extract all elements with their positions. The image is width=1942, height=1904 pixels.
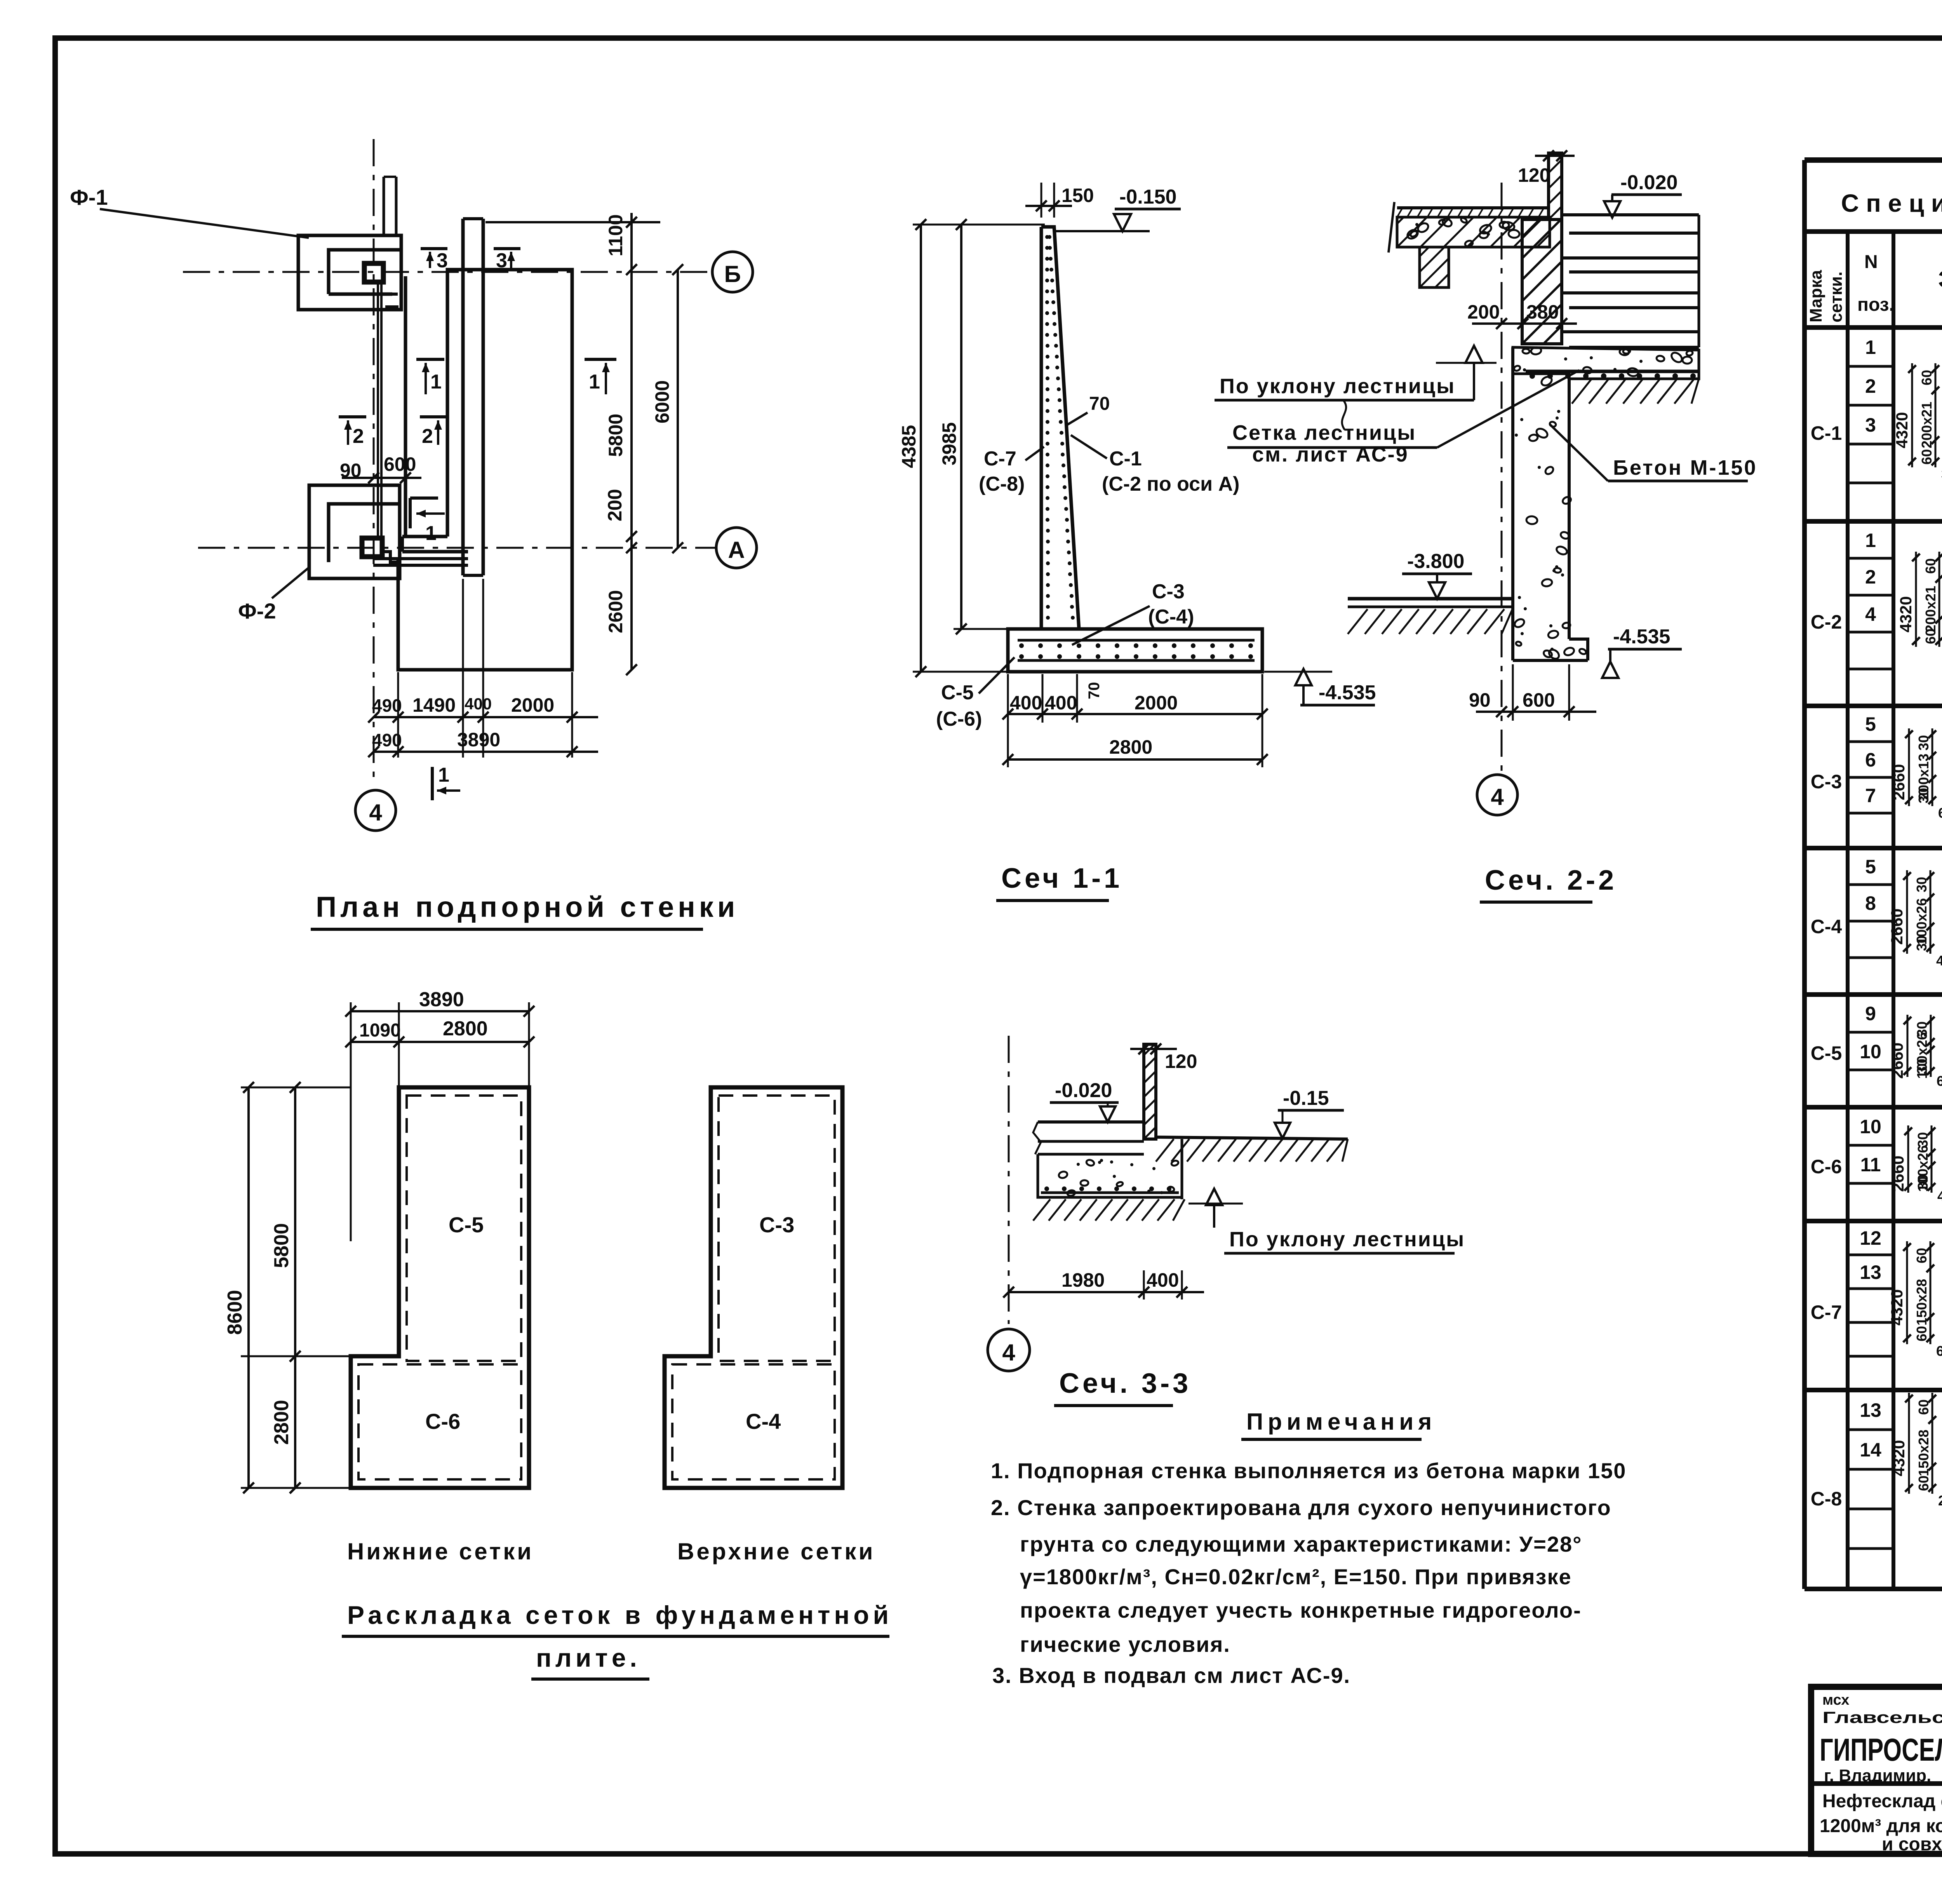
svg-text:3: 3 (437, 249, 448, 272)
svg-text:1: 1 (430, 371, 442, 393)
plan: extension line at top tick (486, 221, 660, 223)
svg-text:Бетон М-150: Бетон М-150 (1613, 456, 1758, 479)
svg-text:Ф-2: Ф-2 (238, 599, 276, 623)
svg-text:3985: 3985 (938, 422, 960, 465)
svg-text:10: 10 (1860, 1041, 1881, 1063)
svg-text:150x28: 150x28 (1914, 1279, 1930, 1326)
svg-text:1100: 1100 (605, 214, 626, 256)
plan: section mark 1 bottom (431, 767, 434, 800)
plan: wall face lines between columns (377, 282, 379, 538)
sec2: wall concrete column (1511, 347, 1514, 639)
svg-text:30: 30 (1916, 788, 1932, 803)
sec3: dim 1980 400 (1009, 1291, 1204, 1293)
sec2: sloped stair slab with pebbles (1513, 347, 1699, 379)
svg-text:3890: 3890 (419, 988, 464, 1011)
titleblock: left row divider (1811, 1781, 1942, 1786)
table: subrow lines С-3 (1848, 740, 1893, 743)
svg-text:(С-4): (С-4) (1148, 606, 1194, 628)
svg-text:400: 400 (465, 695, 492, 713)
svg-text:60: 60 (1919, 370, 1935, 385)
svg-text:По уклону лестницы: По уклону лестницы (1220, 375, 1455, 398)
svg-text:4320: 4320 (1893, 412, 1911, 448)
svg-text:и совхозов: и совхозов (1882, 1834, 1942, 1855)
svg-text:150x28: 150x28 (1916, 1430, 1932, 1476)
sec3: dim 120 top (1130, 1048, 1177, 1050)
svg-text:2600: 2600 (605, 590, 626, 633)
sec2: brick wall band below floor (1522, 219, 1562, 344)
svg-text:-0.020: -0.020 (1620, 171, 1677, 194)
svg-text:1: 1 (438, 764, 449, 786)
svg-text:30: 30 (1915, 1174, 1931, 1190)
table sketch S-2: left dims (1915, 552, 1917, 647)
svg-text:-0.15: -0.15 (1283, 1087, 1329, 1110)
table: subrow lines С-5 (1848, 1031, 1893, 1034)
sec1: extension lines left dims (913, 224, 1045, 226)
labels: leader up to stair with open triangle (1473, 363, 1475, 400)
svg-text:3890: 3890 (457, 729, 500, 751)
sec1: extension verticals bottom dims (1007, 674, 1009, 767)
svg-text:600: 600 (1523, 689, 1555, 711)
plan: axis A circle (716, 528, 757, 568)
svg-text:Нефтесклад емкостью: Нефтесклад емкостью (1822, 1791, 1942, 1812)
svg-text:С-1: С-1 (1109, 448, 1142, 470)
table sketch S-8: left dims (1908, 1393, 1910, 1494)
layout: dashed mesh S-3 (719, 1096, 835, 1361)
plan: leader F-2 (272, 568, 308, 598)
svg-text:Раскладка сеток в фундамент: Раскладка сеток в фундаментной (347, 1601, 893, 1629)
svg-text:5: 5 (1865, 713, 1876, 735)
svg-text:1490: 1490 (412, 694, 456, 716)
layout: dim 3890 top (351, 1010, 529, 1012)
svg-text:С-4: С-4 (1811, 916, 1842, 937)
svg-text:1200м³ для колхозов: 1200м³ для колхозов (1820, 1816, 1942, 1836)
svg-text:С-2: С-2 (1811, 611, 1842, 633)
sec3: rebar dots row (1041, 1192, 1179, 1194)
svg-text:4320: 4320 (1890, 1440, 1908, 1476)
sec3: ground hatch below block (1033, 1199, 1050, 1221)
svg-text:(С-6): (С-6) (936, 708, 982, 730)
table sketch S-7: left dims (1906, 1241, 1908, 1344)
plan: section mark 1 upper right (585, 358, 616, 361)
svg-text:(С-8): (С-8) (979, 473, 1025, 495)
sec3: floor slab left lines (1038, 1120, 1144, 1124)
svg-text:490: 490 (372, 730, 402, 750)
svg-text:200x21: 200x21 (1919, 402, 1935, 448)
svg-text:3: 3 (1865, 414, 1876, 436)
sec1: top dim 150 (1025, 205, 1072, 207)
svg-text:8: 8 (1865, 892, 1876, 914)
table: group separator С-3 (1805, 704, 1942, 708)
layout: upper meshes outline L-shape (665, 1087, 842, 1488)
svg-text:С-7: С-7 (984, 448, 1016, 470)
svg-text:60: 60 (1923, 629, 1939, 644)
svg-text:90: 90 (340, 460, 362, 481)
svg-text:8600: 8600 (224, 1290, 246, 1335)
svg-text:По уклону лестницы: По уклону лестницы (1229, 1228, 1465, 1251)
layout: dashed mesh S-5 (407, 1096, 521, 1361)
svg-text:-4.535: -4.535 (1613, 625, 1670, 648)
sec1: footing bottom rebar line with dots (1018, 659, 1255, 662)
plan: slab outline large rectangle (398, 270, 572, 670)
svg-text:2660: 2660 (1890, 764, 1908, 800)
svg-text:гические условия.: гические условия. (1020, 1632, 1230, 1657)
plan: footing edge double line (461, 219, 465, 575)
svg-text:С-1: С-1 (1811, 422, 1842, 444)
svg-text:6000: 6000 (651, 380, 673, 423)
table: subrow lines С-2 (1848, 557, 1893, 560)
svg-text:С-5: С-5 (941, 681, 974, 704)
svg-text:г. Владимир.: г. Владимир. (1824, 1766, 1931, 1785)
svg-text:4: 4 (369, 800, 382, 826)
svg-text:30: 30 (1914, 935, 1930, 951)
svg-text:С-3: С-3 (759, 1212, 794, 1237)
sec1: stem rebar dots right (1048, 235, 1051, 239)
svg-text:1: 1 (589, 371, 600, 393)
svg-text:(С-2 по оси А): (С-2 по оси А) (1102, 473, 1239, 495)
layout: extension lines left (241, 1087, 399, 1088)
svg-text:13: 13 (1860, 1261, 1881, 1283)
svg-text:65: 65 (1936, 1343, 1942, 1359)
svg-text:С-4: С-4 (746, 1409, 781, 1434)
notes: title underline (1241, 1438, 1422, 1441)
sec3: break mark on floor (1033, 1122, 1041, 1154)
sec2: ground hatch under stair slab (1572, 379, 1592, 404)
svg-text:Б: Б (724, 261, 741, 287)
svg-text:7: 7 (1865, 785, 1876, 807)
svg-text:С-7: С-7 (1811, 1301, 1842, 1323)
svg-text:70: 70 (1086, 682, 1103, 700)
sec2: axis 4 circle (1477, 775, 1517, 815)
svg-text:2660: 2660 (1888, 1043, 1906, 1079)
svg-text:30: 30 (1914, 1059, 1930, 1074)
labels: squiggle between labels (1342, 401, 1346, 430)
svg-text:1090: 1090 (359, 1020, 401, 1041)
svg-text:30: 30 (1914, 877, 1930, 892)
svg-text:N: N (1864, 252, 1878, 272)
svg-text:600: 600 (384, 453, 416, 475)
svg-text:План подпорной стенки: План подпорной стенки (316, 891, 739, 923)
sec2: leader Beton (1550, 424, 1608, 481)
svg-text:11: 11 (1860, 1154, 1881, 1176)
svg-text:60: 60 (1916, 1399, 1932, 1415)
svg-text:Примечания: Примечания (1246, 1409, 1436, 1435)
svg-text:1: 1 (425, 522, 437, 545)
svg-text:2660: 2660 (1888, 909, 1906, 945)
svg-text:13: 13 (1860, 1399, 1881, 1421)
sec2: wall footing step (1513, 639, 1588, 660)
plan: right dimension line 1100 5800 200 2600 (630, 213, 633, 670)
plan: section mark 3 right (494, 247, 520, 250)
svg-text:10: 10 (1860, 1116, 1881, 1138)
plan: extension verticals for bottom dims (397, 672, 399, 758)
plan: dim 90 600 (342, 477, 421, 479)
svg-text:2: 2 (1865, 375, 1876, 397)
svg-text:150: 150 (1061, 185, 1094, 206)
sec3: step edge vertical (1181, 1139, 1183, 1199)
svg-text:Сеч. 3-3: Сеч. 3-3 (1059, 1368, 1191, 1399)
svg-text:2: 2 (422, 425, 433, 448)
layout: line2 underline (531, 1678, 649, 1681)
sec1: footing top rebar line with dots (1018, 639, 1255, 642)
svg-text:Нижние сетки: Нижние сетки (347, 1538, 534, 1564)
svg-text:плите.: плите. (536, 1643, 641, 1672)
plan: section mark 1 upper left (416, 358, 444, 361)
plan: column at F-1 (364, 263, 383, 282)
layout: lower meshes outline L-shape (351, 1087, 529, 1488)
sec2: stair slab rebar mesh line with dots (1526, 370, 1698, 373)
plan: foundation F-1 outer rectangle (298, 235, 401, 310)
sec2: stair treads horizontal lines (1563, 213, 1699, 216)
sec2: dim 120 (1535, 155, 1575, 157)
svg-text:Сеч. 2-2: Сеч. 2-2 (1485, 865, 1617, 896)
sec2: dim 200 380 (1472, 322, 1577, 325)
plan: leader F-1 (100, 209, 309, 238)
table sketch S-1: left dims (1911, 363, 1913, 467)
svg-text:4320: 4320 (1888, 1289, 1906, 1326)
svg-text:-0.020: -0.020 (1055, 1079, 1112, 1102)
svg-text:γ=1800кг/м³, Сн=0.02кг/см², Е=: γ=1800кг/м³, Сн=0.02кг/см², Е=150. При п… (1020, 1564, 1572, 1589)
svg-text:5800: 5800 (270, 1223, 293, 1268)
svg-text:С-3: С-3 (1152, 580, 1185, 603)
sec1: stem rebar dots left (1045, 235, 1049, 239)
svg-text:мсх: мсх (1822, 1692, 1849, 1708)
table: column dividers (1846, 232, 1850, 1589)
table: group separator С-6 (1805, 1105, 1942, 1110)
svg-text:С-8: С-8 (1811, 1488, 1842, 1510)
table: subrow lines С-7 (1848, 1254, 1893, 1256)
svg-text:14: 14 (1860, 1439, 1881, 1461)
svg-text:60: 60 (1914, 1326, 1930, 1341)
svg-text:Марка: Марка (1806, 270, 1825, 322)
sec2: upper thin wall hatched (1549, 153, 1562, 219)
plan: foundation F-2 inner pocket (329, 504, 400, 562)
plan: vertical centerline axis 4 (373, 139, 375, 785)
plan: F-2 step detail (382, 552, 400, 562)
table: subrow lines С-6 (1848, 1144, 1893, 1147)
svg-text:Спецификация: Спецификация (1841, 189, 1942, 217)
sec1: bottom dim 2800 (1008, 758, 1262, 761)
svg-text:120: 120 (1165, 1050, 1197, 1072)
svg-text:поз.: поз. (1857, 294, 1894, 315)
svg-text:20: 20 (1938, 1493, 1942, 1509)
svg-text:-4.535: -4.535 (1319, 681, 1376, 704)
svg-text:70: 70 (1089, 394, 1110, 414)
sec2: stair right edge vertical (1698, 215, 1700, 347)
sec2: title underline (1480, 901, 1592, 904)
plan: retaining wall outer face (404, 276, 407, 535)
svg-text:90: 90 (1469, 689, 1491, 711)
svg-text:С-5: С-5 (1811, 1042, 1842, 1064)
plan: hidden dashes near F-1 (385, 293, 401, 296)
titleblock: outer box (1811, 1687, 1942, 1854)
plan: section mark 1 at F-2 (410, 496, 438, 500)
table: subrow lines С-4 (1848, 883, 1893, 886)
svg-text:3. Вход в подвал см лист АС-: 3. Вход в подвал см лист АС-9. (992, 1663, 1350, 1688)
sec3: ground hatch right (1156, 1139, 1174, 1162)
svg-text:сетки.: сетки. (1827, 272, 1846, 322)
sec2: ground hatch under basement floor (1348, 609, 1368, 634)
svg-text:4320: 4320 (1897, 596, 1915, 632)
plan: axis A dash-dot line (198, 547, 715, 549)
sec2: dim 90 600 bottom (1476, 711, 1596, 713)
svg-text:Верхние сетки: Верхние сетки (677, 1538, 875, 1564)
layout: left dim 5800 2800 (294, 1087, 296, 1488)
svg-text:проекта следует учесть конкрет: проекта следует учесть конкретные гидрог… (1020, 1598, 1582, 1622)
plan: foundation F-2 outer rectangle (309, 485, 400, 578)
svg-text:5800: 5800 (605, 414, 626, 457)
svg-text:9: 9 (1865, 1003, 1876, 1024)
table: subrow lines С-1 (1848, 365, 1893, 368)
svg-text:60: 60 (1923, 558, 1939, 574)
table sketch S-4: left dims (1906, 870, 1908, 954)
plan: wall corner lines at axis A (402, 535, 447, 538)
sec1: left dim 4385 (920, 225, 922, 672)
svg-text:С-6: С-6 (1811, 1156, 1842, 1178)
plan: axis B dash-dot line (183, 271, 712, 273)
svg-text:Сеч 1-1: Сеч 1-1 (1001, 863, 1122, 894)
sec3: concrete block under floor (1038, 1139, 1182, 1199)
table: group separator С-1 (1805, 325, 1942, 330)
plan: axis 4 circle (355, 790, 396, 831)
sec1: footing outline (1008, 629, 1262, 672)
svg-text:60: 60 (1916, 1475, 1932, 1491)
svg-text:4: 4 (1865, 603, 1876, 625)
plan: bottom dimension line 490 3890 (374, 751, 598, 753)
svg-text:4385: 4385 (898, 425, 920, 468)
sec2: break line left (1389, 202, 1394, 253)
svg-text:6: 6 (1865, 749, 1876, 771)
plan: wall double line above F-1 (383, 177, 385, 236)
svg-text:2000: 2000 (511, 694, 554, 716)
svg-text:12: 12 (1860, 1227, 1881, 1249)
svg-text:Эскиз: Эскиз (1938, 266, 1942, 293)
table sketch S-3: left dims (1908, 728, 1910, 806)
plan: column at F-2 (362, 538, 382, 557)
svg-text:2. Стенка запроектирована для: 2. Стенка запроектирована для сухого неп… (991, 1495, 1611, 1520)
layout: dim 1090 2800 (351, 1041, 529, 1043)
svg-text:4: 4 (1491, 784, 1504, 810)
plan: bottom dimension line 490 1490 400 2000 (374, 716, 598, 718)
sec1: bottom dim 400 400 70 2000 (1008, 713, 1262, 715)
svg-text:65: 65 (1937, 1073, 1942, 1089)
svg-text:200x21: 200x21 (1923, 586, 1939, 632)
svg-text:2000: 2000 (1135, 692, 1178, 714)
plan: section mark 2 left (339, 415, 366, 418)
sec2: drop beam under slab (1420, 247, 1449, 287)
plan: section mark 3 left (421, 247, 447, 250)
table: group separator С-5 (1805, 992, 1942, 997)
svg-text:2660: 2660 (1889, 1156, 1907, 1192)
svg-text:С-5: С-5 (449, 1212, 484, 1237)
table: group separator С-4 (1805, 846, 1942, 850)
layout: left dim 8600 (247, 1087, 250, 1488)
svg-text:400: 400 (1045, 692, 1077, 714)
sec2: floor slab left top lines (1397, 206, 1550, 209)
svg-text:2800: 2800 (443, 1017, 488, 1040)
svg-text:ГИПРОСЕЛЬХОЗПРОМ: ГИПРОСЕЛЬХОЗПРОМ (1820, 1732, 1942, 1768)
table: group separator С-7 (1805, 1219, 1942, 1223)
table sketch S-6: left dims (1907, 1125, 1909, 1193)
svg-text:2: 2 (353, 425, 364, 448)
sec1: left dim 3985 (960, 225, 962, 629)
table: subrow lines С-8 (1848, 1428, 1893, 1431)
table sketch S-5: left dims (1907, 1015, 1909, 1077)
svg-text:2800: 2800 (1109, 736, 1152, 758)
svg-text:2800: 2800 (270, 1400, 293, 1445)
sec2: basement floor double line (1348, 597, 1512, 601)
svg-text:65: 65 (1938, 805, 1942, 821)
svg-text:1. Подпорная стенка выполняет: 1. Подпорная стенка выполняется из бетон… (991, 1458, 1626, 1483)
svg-text:1: 1 (1865, 336, 1876, 358)
svg-text:200: 200 (1467, 301, 1500, 323)
svg-text:40: 40 (1936, 953, 1942, 969)
svg-text:30: 30 (1916, 735, 1932, 751)
svg-text:грунта со следующими характери: грунта со следующими характеристиками: У… (1020, 1532, 1582, 1556)
table: group separator С-2 (1805, 519, 1942, 524)
svg-text:С-6: С-6 (425, 1409, 460, 1434)
layout: big title underline (342, 1635, 889, 1638)
svg-text:60: 60 (1914, 1248, 1930, 1263)
svg-text:Главсельстройпроект: Главсельстройпроект (1822, 1708, 1942, 1726)
plan: foundation F-1 inner pocket (329, 250, 401, 294)
sec3: ground line right of wall (1156, 1137, 1348, 1139)
svg-text:3: 3 (496, 249, 507, 272)
svg-text:400: 400 (1147, 1269, 1179, 1291)
svg-text:4: 4 (1002, 1340, 1015, 1366)
layout: dashed mesh S-6 (358, 1364, 521, 1479)
svg-text:120: 120 (1518, 164, 1550, 186)
svg-text:380: 380 (1526, 301, 1559, 323)
sec3: leader po uklonu with triangle (1213, 1204, 1215, 1228)
svg-text:40: 40 (1937, 1188, 1942, 1204)
plan: title underline (311, 928, 703, 931)
table: outer and header frame (1805, 157, 1942, 163)
svg-text:60: 60 (1919, 449, 1935, 465)
sec2: floor slab band (1397, 217, 1550, 247)
plan: axis B circle (712, 252, 753, 292)
svg-text:А: А (728, 537, 745, 563)
layout: extension lines top dims (350, 1002, 352, 1241)
svg-text:-0.150: -0.150 (1119, 186, 1176, 208)
labels: leader to stair mesh (1437, 370, 1579, 448)
svg-text:Сетка лестницы: Сетка лестницы (1232, 421, 1416, 444)
svg-text:2: 2 (1865, 566, 1876, 588)
svg-text:5: 5 (1865, 856, 1876, 878)
layout: dashed mesh S-4 (672, 1364, 835, 1479)
plan: section mark 2 right (420, 415, 447, 418)
svg-text:400: 400 (1010, 692, 1042, 714)
sec3: title underline (1054, 1404, 1173, 1407)
sec3: axis 4 circle (988, 1329, 1030, 1371)
svg-text:200: 200 (604, 489, 626, 521)
sec1: wall stem outline (1041, 227, 1079, 629)
sec2: axis 4 dash-dot vertical (1501, 183, 1503, 773)
plan: dimension line 6000 (677, 270, 679, 548)
sec3: thin wall hatched (1144, 1044, 1156, 1139)
svg-text:-3.800: -3.800 (1407, 550, 1464, 573)
svg-text:Ф-1: Ф-1 (70, 185, 108, 209)
svg-text:С-3: С-3 (1811, 771, 1842, 793)
table: group separator С-8 (1805, 1388, 1942, 1392)
sec1: title underline (996, 899, 1109, 902)
svg-text:1: 1 (1865, 530, 1876, 551)
sec3: axis dash-dot vertical (1008, 1036, 1010, 1324)
svg-text:1980: 1980 (1061, 1269, 1105, 1291)
